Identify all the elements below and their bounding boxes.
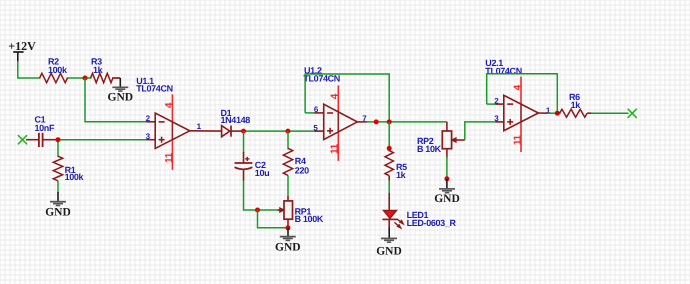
svg-text:1: 1: [197, 122, 202, 131]
svg-text:GND: GND: [376, 246, 402, 258]
svg-text:GND: GND: [434, 193, 460, 205]
svg-text:4: 4: [512, 84, 523, 90]
svg-text:4: 4: [164, 102, 175, 108]
svg-text:1k: 1k: [93, 65, 104, 75]
svg-text:TL074CN: TL074CN: [303, 74, 340, 84]
svg-text:GND: GND: [45, 207, 71, 219]
svg-text:TL074CN: TL074CN: [136, 84, 173, 94]
svg-text:+12V: +12V: [8, 39, 36, 53]
svg-text:1k: 1k: [396, 170, 407, 180]
svg-text:1k: 1k: [571, 100, 582, 110]
svg-text:B 10K: B 10K: [417, 144, 442, 154]
svg-text:11: 11: [512, 134, 523, 145]
svg-text:100k: 100k: [65, 172, 85, 182]
svg-text:100k: 100k: [48, 65, 68, 75]
svg-text:4: 4: [330, 93, 341, 99]
svg-text:1N4148: 1N4148: [221, 115, 251, 125]
svg-text:220: 220: [295, 166, 309, 176]
svg-text:GND: GND: [108, 92, 134, 104]
svg-text:LED-0603_R: LED-0603_R: [407, 218, 457, 228]
svg-text:TL074CN: TL074CN: [485, 66, 522, 76]
svg-text:B 100K: B 100K: [295, 214, 324, 224]
svg-text:10nF: 10nF: [35, 123, 55, 133]
svg-text:11: 11: [164, 152, 175, 163]
svg-text:GND: GND: [275, 242, 301, 254]
svg-text:11: 11: [330, 143, 341, 154]
svg-text:10u: 10u: [255, 168, 269, 178]
